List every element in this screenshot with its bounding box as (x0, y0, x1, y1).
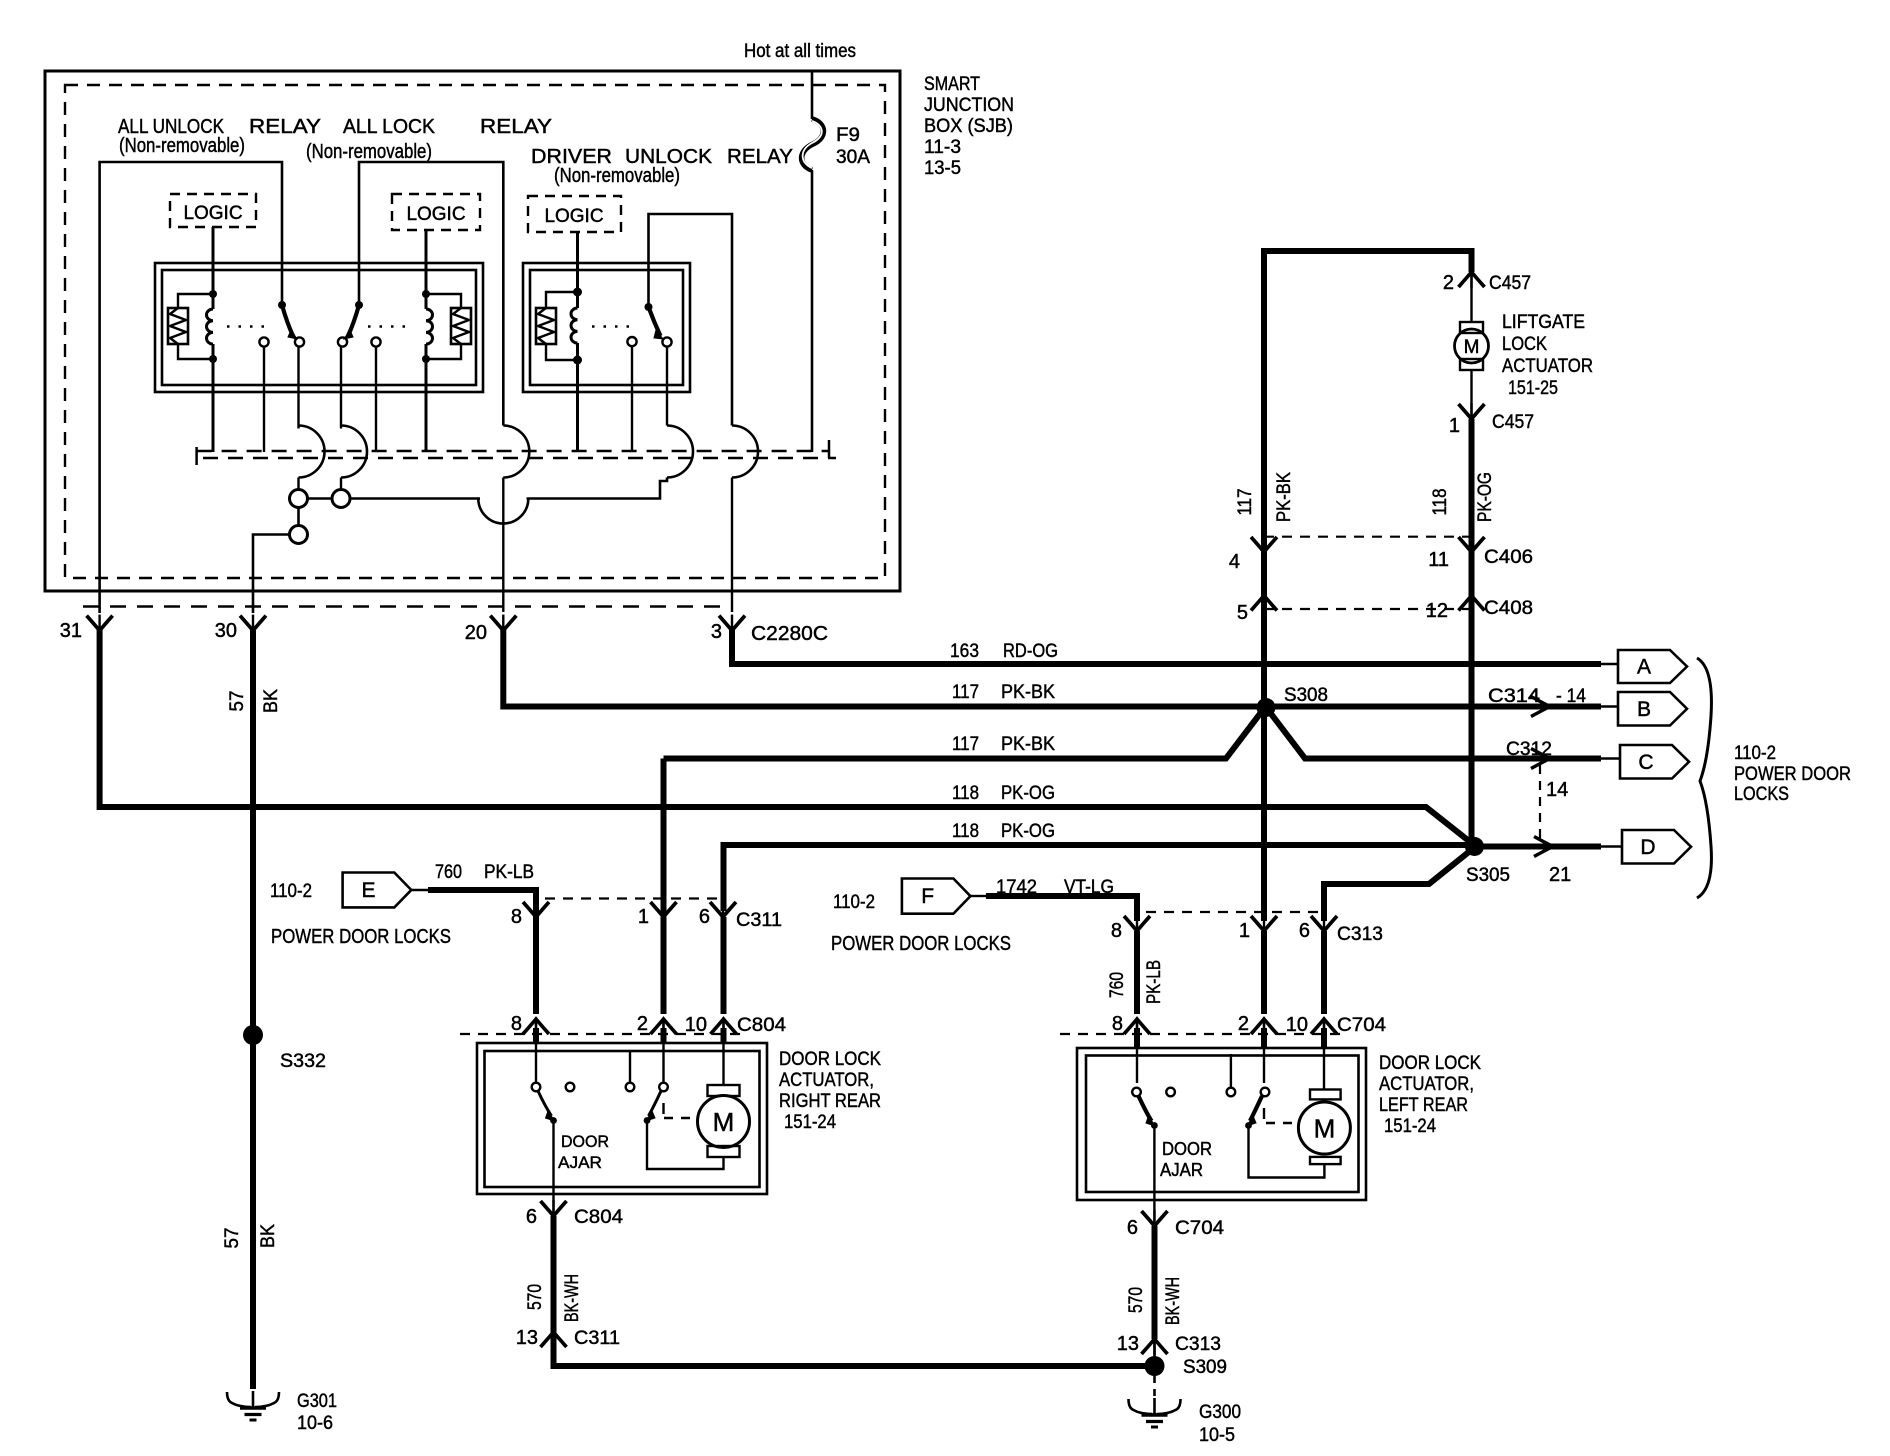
connector C312 dashed link line (1539, 765, 1541, 838)
pin 12 arrow C408 (1426, 596, 1533, 623)
door ajar switch left pivot (1132, 1088, 1158, 1129)
label (Non-removable) 3 (554, 165, 680, 187)
logic box 2 (all lock relay) (392, 194, 480, 230)
wire C311-1 to C804-2 (661, 759, 667, 1015)
wire 117 PK-BK actuator to S308 (664, 709, 1265, 759)
svg-text:C408: C408 (1484, 598, 1533, 619)
wire into liftgate motor (1470, 272, 1472, 322)
wire resistor R3 parallel to coil (546, 292, 578, 360)
pin 30 arrow (215, 615, 266, 642)
svg-text:LOCKS: LOCKS (1734, 784, 1789, 805)
svg-text:C457: C457 (1489, 273, 1531, 294)
svg-text:C804: C804 (737, 1015, 786, 1036)
pin 8 arrow C313 (1111, 915, 1150, 942)
svg-text:B: B (1637, 698, 1651, 721)
label 118 PK-OG vertical (1430, 472, 1496, 522)
contact terminal SW3 NC (627, 337, 636, 452)
coil K1 (all unlock relay) (207, 290, 218, 363)
Smart Junction Box inner dashed boundary (65, 85, 885, 578)
label C2280C (751, 623, 828, 645)
wire C313-8 to C704-8 (1134, 931, 1140, 1014)
pin 1 arrow C457 (1449, 403, 1534, 437)
label 118 PK-OG lower (952, 821, 1055, 842)
connector F (902, 879, 971, 914)
wire junction1 to junction2 link (308, 497, 333, 500)
svg-text:13: 13 (516, 1327, 538, 1349)
label 117 PK-BK vertical (1235, 472, 1295, 522)
dotted actuation link relay B (592, 325, 630, 328)
liftgate lock actuator motor M (1455, 322, 1489, 370)
pin 11 arrow C406 (1428, 536, 1533, 571)
label DOOR LOCK ACTUATOR RIGHT REAR 151-24 (779, 1049, 881, 1133)
svg-text:5: 5 (1237, 602, 1248, 624)
svg-text:RIGHT REAR: RIGHT REAR (779, 1091, 881, 1112)
svg-text:4: 4 (1229, 551, 1240, 573)
svg-text:C312: C312 (1506, 739, 1552, 760)
wire 570 BK-WH right (551, 1216, 557, 1332)
svg-text:A: A (1637, 656, 1651, 679)
pin 10 arrow C804 (685, 1014, 787, 1036)
wire C704-8 into actuator (1136, 1019, 1138, 1083)
dotted actuation link relay A right (368, 325, 413, 328)
svg-text:570: 570 (1126, 1287, 1147, 1313)
svg-text:6: 6 (1127, 1217, 1138, 1239)
label POWER DOOR LOCKS left (271, 926, 451, 948)
svg-text:ACTUATOR,: ACTUATOR, (779, 1070, 874, 1091)
wire door ajar right to C804-6 (552, 1121, 554, 1217)
connector C313 dashed line (1146, 911, 1324, 913)
label 163 RD-OG (950, 641, 1058, 662)
label 110-2 right (833, 892, 875, 913)
svg-text:JUNCTION: JUNCTION (924, 95, 1014, 116)
wire battery feed into SJB (811, 70, 814, 119)
wire S309 to G300 dashed (1153, 1376, 1156, 1397)
svg-text:6: 6 (1299, 920, 1310, 942)
door lock switch left pivot (1245, 1088, 1269, 1129)
svg-text:M: M (713, 1107, 735, 1137)
svg-text:760: 760 (1107, 972, 1128, 998)
wire stub into connector A (1601, 663, 1620, 665)
pin 13 arrow C311 bottom (516, 1327, 620, 1349)
wire C804-2 into actuator (662, 1019, 664, 1083)
switch SW3 (driver unlock relay) (645, 303, 664, 339)
svg-text:C311: C311 (736, 910, 782, 931)
svg-text:G301: G301 (297, 1391, 337, 1412)
svg-text:31: 31 (60, 620, 82, 642)
svg-text:PK-OG: PK-OG (1001, 783, 1055, 804)
connector C704 dashed line (1060, 1033, 1340, 1035)
svg-text:D: D (1640, 836, 1655, 859)
svg-text:110-2: 110-2 (270, 881, 312, 902)
label 57 BK upper (227, 689, 282, 713)
junction splice circle 1 (290, 490, 308, 508)
pin 8 arrow C704 (1112, 1013, 1150, 1035)
connector C406 dashed line (1264, 536, 1472, 538)
svg-text:G300: G300 (1199, 1402, 1241, 1423)
svg-text:LOGIC: LOGIC (183, 203, 242, 224)
pin 1 arrow C313 (1239, 915, 1277, 942)
svg-text:151-24: 151-24 (1384, 1116, 1436, 1137)
door lock switch left terminal (1227, 1054, 1236, 1096)
svg-text:C804: C804 (574, 1207, 623, 1228)
svg-text:1: 1 (638, 906, 649, 928)
svg-text:DOOR: DOOR (561, 1132, 609, 1151)
svg-text:(Non-removable): (Non-removable) (554, 165, 680, 187)
svg-text:DOOR: DOOR (1162, 1139, 1212, 1159)
wire 118 PK-OG pin31 to S305 (100, 629, 1474, 845)
svg-text:C2280C: C2280C (751, 623, 828, 645)
wire coil K2 to bus (425, 359, 428, 452)
pin 6 arrow C311 (699, 901, 782, 931)
label LIFTGATE LOCK ACTUATOR 151-25 (1502, 312, 1593, 399)
connector C311 dashed line (545, 897, 723, 899)
coil K2 (all lock relay) (422, 290, 433, 363)
fuse F9 30A (802, 119, 871, 170)
svg-text:RELAY: RELAY (480, 116, 552, 138)
wire fuse F9 to internal bus (811, 170, 814, 452)
svg-text:AJAR: AJAR (1160, 1160, 1203, 1180)
svg-text:163: 163 (950, 641, 979, 662)
wire logic1 to relay coil K1 (212, 227, 215, 294)
wire 117 PK-BK pin20 to S308 to connector B (503, 629, 1601, 707)
wire hop SW1-NO over bus (299, 426, 325, 478)
splice S309 (1145, 1356, 1228, 1378)
ground G300 (1129, 1398, 1242, 1446)
wire 118 PK-OG actuator to S305 (724, 845, 1471, 911)
pin 6 arrow C804 bottom (526, 1200, 624, 1228)
resistor R1 (all unlock relay) (168, 308, 188, 344)
svg-text:BK-WH: BK-WH (1163, 1277, 1184, 1325)
junction splice circle 3 (290, 526, 308, 544)
svg-text:C406: C406 (1484, 547, 1533, 568)
svg-text:PK-LB: PK-LB (484, 862, 534, 883)
svg-text:C704: C704 (1175, 1218, 1224, 1239)
svg-text:118: 118 (1430, 489, 1451, 516)
logic box 1 (all unlock relay) (170, 194, 256, 227)
svg-text:8: 8 (511, 1013, 522, 1035)
wire S308 to connector C (1267, 709, 1601, 759)
pin 6 arrow C313 (1299, 915, 1383, 945)
wire 163 RD-OG pin3 to connector A (732, 629, 1601, 664)
wire liftgate motor to pin1 (1470, 370, 1472, 419)
wire SW3 common to pin 3 upper (649, 214, 733, 426)
label ALL LOCK RELAY (343, 116, 552, 138)
svg-text:C314: C314 (1488, 686, 1540, 707)
connector arrow C312 (1531, 749, 1550, 769)
wire junction2 to SW3-NO run (350, 478, 667, 524)
svg-text:S332: S332 (280, 1051, 326, 1072)
label C312 (1506, 739, 1552, 760)
svg-text:10-5: 10-5 (1199, 1425, 1235, 1446)
motor M right rear (698, 1085, 750, 1157)
label (Non-removable) 2 (306, 141, 432, 163)
svg-text:PK-BK: PK-BK (1001, 734, 1055, 755)
door ajar switch right NC contact (566, 1083, 575, 1092)
svg-text:110-2: 110-2 (1734, 743, 1776, 764)
wire stub into connector C (1601, 757, 1622, 759)
logic box 3 (driver unlock relay) (528, 196, 621, 232)
label 760 PK-LB vertical (1107, 960, 1165, 1004)
svg-text:PK-OG: PK-OG (1475, 472, 1496, 522)
svg-text:110-2: 110-2 (833, 892, 875, 913)
wire door ajar left to C704-6 (1153, 1126, 1155, 1227)
dotted actuation link relay A left (227, 325, 272, 328)
pin 2 arrow C804 (637, 1013, 677, 1035)
svg-text:POWER DOOR: POWER DOOR (1734, 764, 1851, 785)
label 110-2 left (270, 881, 312, 902)
door lock actuator right rear box (477, 1043, 767, 1194)
svg-text:117: 117 (1235, 489, 1256, 516)
connector C (1620, 745, 1689, 779)
svg-text:F: F (921, 885, 934, 908)
ground G301 (227, 1391, 337, 1434)
wire C311-13 to S309 (554, 1332, 1146, 1366)
wire door lock switch right to motor (647, 1121, 724, 1170)
Smart Junction Box outer boundary (45, 71, 900, 591)
label Hot at all times (744, 41, 856, 62)
pin 3 arrow (711, 615, 745, 643)
svg-text:BK: BK (258, 1224, 279, 1248)
svg-text:1742: 1742 (996, 877, 1037, 898)
wire coil K3 to bus (576, 360, 579, 452)
svg-text:8: 8 (511, 906, 522, 928)
wire 118 PK-OG liftgate down to S305 (1469, 419, 1475, 847)
svg-text:21: 21 (1549, 864, 1571, 886)
svg-text:S309: S309 (1183, 1357, 1227, 1378)
connector D (1622, 830, 1691, 864)
pin 8 arrow C804 (511, 1013, 549, 1035)
wire logic3 to relay coil K3 (576, 232, 579, 292)
svg-text:570: 570 (525, 1284, 546, 1310)
pin 2 arrow C457 (1443, 272, 1531, 294)
svg-text:DOOR LOCK: DOOR LOCK (779, 1049, 881, 1070)
svg-text:(Non-removable): (Non-removable) (119, 135, 245, 157)
svg-text:E: E (361, 879, 375, 902)
label 118 PK-OG upper (952, 783, 1055, 804)
svg-text:S308: S308 (1284, 685, 1328, 706)
connector E (343, 873, 412, 908)
wire stub from connector E (411, 889, 428, 891)
door lock switch right pivot (644, 1083, 668, 1124)
svg-text:6: 6 (699, 906, 710, 928)
svg-text:10-6: 10-6 (297, 1413, 333, 1434)
label C314 - 14 (1488, 686, 1586, 707)
svg-text:8: 8 (1111, 920, 1122, 942)
svg-text:BK: BK (261, 689, 282, 713)
connector arrow pin 21 (1534, 837, 1571, 887)
door ajar switch right pivot (532, 1083, 557, 1124)
motor M left rear (1298, 1090, 1350, 1165)
connector B (1618, 692, 1687, 726)
label 117 PK-BK upper (952, 682, 1055, 703)
svg-text:BK-WH: BK-WH (562, 1274, 583, 1322)
svg-text:13: 13 (1117, 1333, 1139, 1355)
label DOOR AJAR right (558, 1132, 609, 1172)
svg-text:118: 118 (952, 821, 979, 842)
wire hop SW3-NO over bus (667, 426, 693, 478)
svg-text:12: 12 (1426, 600, 1448, 622)
svg-text:C313: C313 (1337, 924, 1383, 945)
label 57 BK lower (222, 1224, 279, 1249)
label 117 PK-BK lower (952, 734, 1055, 755)
svg-text:- 14: - 14 (1556, 686, 1586, 707)
contact terminal SW1 NO (295, 337, 304, 428)
svg-text:10: 10 (685, 1014, 707, 1036)
label ALL UNLOCK RELAY (118, 116, 321, 138)
wire S305 to C313 pin 6 (1324, 851, 1470, 921)
wire stub from connector F (970, 895, 986, 897)
door lock switch right terminal (626, 1051, 635, 1091)
svg-text:11: 11 (1428, 549, 1449, 571)
svg-text:ALL LOCK: ALL LOCK (343, 116, 436, 138)
label 1742 VT-LG (996, 877, 1114, 898)
pin 5 arrow C408 (1237, 596, 1277, 625)
splice S308 (1257, 685, 1329, 717)
mech link dashes left motor (1264, 1108, 1307, 1123)
label 110-2 POWER DOOR LOCKS right (1734, 743, 1851, 805)
splice S305 (1465, 837, 1510, 886)
contact terminal SW2 NO (338, 337, 347, 428)
pin 31 arrow (60, 615, 113, 642)
wire junction3 to pin 30 (253, 535, 290, 614)
wire 570 BK-WH left (1152, 1226, 1158, 1339)
relay box B border (523, 263, 690, 392)
svg-text:M: M (1314, 1114, 1336, 1144)
wire 760 PK-LB E to C311 pin 8 (428, 890, 536, 917)
wire stub into connector D (1601, 845, 1624, 847)
contact terminal SW3 NO (662, 337, 671, 425)
svg-text:RELAY: RELAY (727, 146, 793, 168)
wire coil K1 to bus (212, 359, 215, 452)
label DOOR LOCK ACTUATOR LEFT REAR 151-24 (1379, 1053, 1481, 1137)
svg-text:11-3: 11-3 (924, 137, 961, 158)
connector A (1618, 650, 1687, 683)
svg-text:LEFT REAR: LEFT REAR (1379, 1095, 1468, 1116)
resistor R2 (all lock relay) (451, 308, 471, 344)
svg-text:POWER DOOR LOCKS: POWER DOOR LOCKS (831, 933, 1011, 955)
svg-text:30: 30 (215, 620, 237, 642)
svg-text:DOOR LOCK: DOOR LOCK (1379, 1053, 1481, 1074)
contact terminal SW1 NC (259, 337, 268, 452)
svg-text:SMART: SMART (924, 74, 980, 95)
svg-text:LOGIC: LOGIC (406, 204, 465, 225)
svg-text:ACTUATOR: ACTUATOR (1502, 356, 1593, 377)
svg-text:10: 10 (1286, 1014, 1308, 1036)
svg-text:117: 117 (952, 682, 979, 703)
label 14 (C312 pin) (1546, 779, 1568, 801)
svg-text:6: 6 (526, 1206, 537, 1228)
svg-text:20: 20 (465, 622, 487, 644)
wire C313-1 to C704-2 (1261, 931, 1267, 1014)
door lock actuator left rear box (1077, 1048, 1366, 1200)
label DRIVER UNLOCK RELAY (531, 146, 793, 168)
wire door lock switch left to motor (1249, 1126, 1325, 1178)
pin 13 arrow C313 bottom (1117, 1333, 1221, 1355)
splice S332 (243, 1025, 326, 1072)
svg-text:RELAY: RELAY (249, 116, 321, 138)
svg-text:S305: S305 (1466, 865, 1510, 886)
label POWER DOOR LOCKS right (831, 933, 1011, 955)
wire C313-6 to C704-10 (1321, 931, 1327, 1014)
wire C311-6 to C804-10 (721, 917, 727, 1014)
svg-text:8: 8 (1112, 1013, 1123, 1035)
pin 1 arrow C311 (638, 901, 677, 928)
switch SW1 (all unlock relay) (278, 301, 297, 339)
wire stub into connector B (1601, 705, 1620, 707)
label 570 BK-WH right (525, 1274, 583, 1322)
wire SW1 common to pin 31 (100, 162, 282, 613)
svg-text:LOCK: LOCK (1502, 334, 1547, 355)
svg-text:PK-BK: PK-BK (1274, 472, 1295, 522)
label (Non-removable) 1 (119, 135, 245, 157)
svg-text:2: 2 (637, 1013, 648, 1035)
svg-text:1: 1 (1449, 415, 1460, 437)
svg-text:14: 14 (1546, 779, 1568, 801)
svg-text:ACTUATOR,: ACTUATOR, (1379, 1074, 1474, 1095)
svg-text:117: 117 (952, 734, 979, 755)
svg-text:2: 2 (1443, 272, 1454, 294)
svg-text:C457: C457 (1492, 412, 1534, 433)
svg-text:RD-OG: RD-OG (1003, 641, 1058, 662)
connector C408 dashed line (1264, 608, 1472, 610)
junction splice circle 2 (332, 490, 350, 508)
svg-text:760: 760 (435, 862, 462, 883)
svg-text:Hot at all times: Hot at all times (744, 41, 856, 62)
wire C704-2 into actuator (1263, 1019, 1265, 1083)
wire 1742 VT-LG F to C313 pin 8 (986, 896, 1137, 921)
wire C704-10 to motor (1323, 1019, 1325, 1090)
wire hop pin20 feed over bus (503, 426, 529, 613)
wire C311-8 to C804-8 (533, 917, 539, 1014)
wire hop pin3 feed over bus (732, 426, 758, 613)
svg-text:VT-LG: VT-LG (1064, 877, 1114, 898)
svg-text:13-5: 13-5 (924, 158, 961, 179)
wire S305 to connector D (1480, 844, 1601, 850)
connector arrow C314 pin 14 (1531, 697, 1550, 717)
connector C804 dashed line (460, 1033, 740, 1035)
contact terminal SW2 NC (371, 337, 380, 452)
pin 8 arrow C311 (511, 901, 549, 928)
svg-text:3: 3 (711, 621, 722, 643)
pin 2 arrow C704 (1238, 1013, 1277, 1035)
wire junction1 to junction3 (297, 508, 300, 526)
wire liftgate feed top (1264, 251, 1472, 708)
coil K3 (driver unlock relay) (571, 288, 582, 365)
switch SW2 (all lock relay) (344, 301, 363, 339)
wire SW2 common to pin 20 upper (359, 162, 503, 426)
pin 10 arrow C704 (1286, 1014, 1387, 1036)
svg-text:LIFTGATE: LIFTGATE (1502, 312, 1585, 333)
svg-text:C704: C704 (1337, 1015, 1386, 1036)
svg-text:C: C (1638, 751, 1653, 774)
label SMART JUNCTION BOX (SJB) 11-3 13-5 (924, 74, 1014, 179)
wire C804-8 into actuator (535, 1019, 537, 1083)
svg-text:57: 57 (222, 1228, 243, 1249)
wire S308 down to C313 pin 1 (1261, 708, 1267, 922)
svg-text:(Non-removable): (Non-removable) (306, 141, 432, 163)
label 760 PK-LB (435, 862, 534, 883)
svg-text:M: M (1464, 337, 1480, 358)
wire SW1-NO to junction (297, 478, 299, 490)
svg-text:LOGIC: LOGIC (544, 206, 603, 227)
wire hop SW2-NO over bus (341, 426, 367, 478)
connector C2280C face dashed line (83, 605, 727, 608)
svg-text:POWER DOOR LOCKS: POWER DOOR LOCKS (271, 926, 451, 948)
wire resistor R2 parallel to coil (426, 294, 461, 359)
pin 4 arrow C406 (1229, 536, 1277, 573)
wire SW2-NO to junction (340, 478, 342, 490)
door ajar switch left NC contact (1166, 1088, 1175, 1097)
